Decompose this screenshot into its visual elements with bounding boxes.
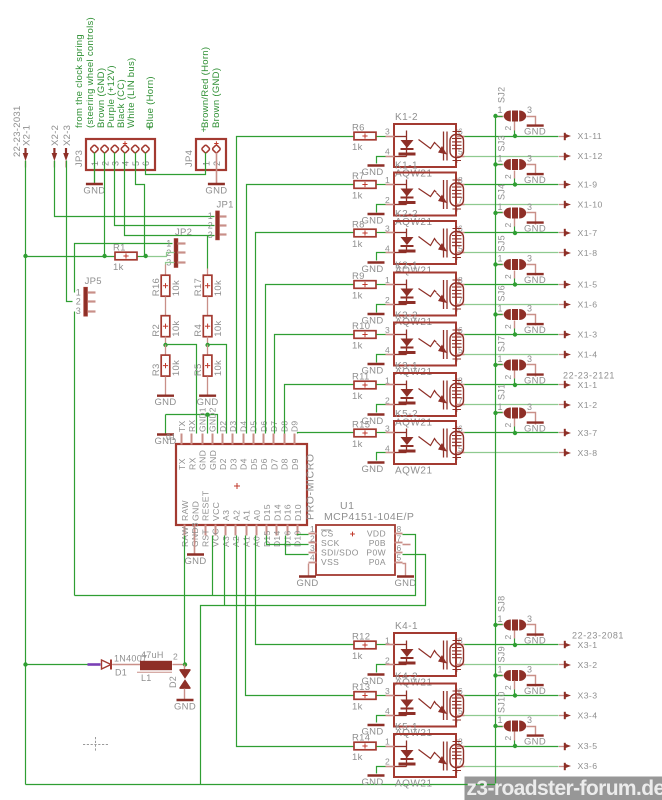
svg-text:GND: GND [197, 397, 219, 408]
wire opto K2-1 output B [465, 304, 559, 306]
wire R2 to node [165, 337, 167, 345]
svg-text:4: 4 [121, 161, 131, 166]
svg-text:GND: GND [524, 686, 546, 697]
svg-text:3: 3 [527, 354, 532, 364]
svg-text:2: 2 [385, 295, 390, 305]
wire D15 to U1 SCK [267, 536, 309, 545]
wire bottom rail to SJ bus [26, 784, 496, 786]
PRO-MICRO top pins [181, 434, 183, 445]
wire RAW down to L1 D2 node [184, 536, 186, 665]
wire JP3 pin1 to ground [94, 153, 96, 185]
wire SJ6 pin1 to bus [496, 314, 503, 316]
svg-text:JP5: JP5 [85, 276, 102, 287]
svg-text:X2-2: X2-2 [50, 125, 61, 146]
wire node to R3 [165, 345, 167, 355]
svg-text:4: 4 [385, 444, 390, 454]
svg-text:TX: TX [177, 421, 187, 432]
svg-text:4: 4 [310, 553, 315, 563]
wire opto K5-2 output B [465, 452, 559, 454]
wire D9 to R11 [285, 385, 355, 434]
svg-text:X1-6: X1-6 [578, 300, 598, 310]
svg-text:2: 2 [503, 374, 513, 379]
wire opto K5-1 output B [465, 766, 559, 768]
wire opto K5-2 cathode to ground [377, 453, 386, 461]
wire D10 to U1 CS [298, 535, 309, 536]
svg-text:1: 1 [385, 275, 390, 285]
resistor R12 [354, 641, 376, 649]
ground below D2 [177, 699, 194, 701]
diode D2 suppressor [184, 665, 186, 670]
svg-text:P0W: P0W [366, 547, 386, 557]
resistor R4 [203, 316, 212, 337]
resistor R10 [354, 331, 376, 339]
svg-text:2: 2 [503, 634, 513, 639]
wire R4 to node [207, 337, 209, 345]
optocoupler K2-2 [394, 221, 456, 264]
wire opto K2-1 output A [465, 284, 559, 286]
svg-text:1: 1 [385, 636, 390, 646]
svg-text:2: 2 [385, 757, 390, 767]
svg-text:X1-4: X1-4 [578, 350, 598, 360]
junction node R2-R3 [163, 343, 167, 347]
svg-text:GND: GND [198, 450, 208, 470]
svg-text:D4: D4 [239, 458, 249, 470]
svg-text:X1-7: X1-7 [578, 228, 598, 238]
wire L1 to node [173, 664, 185, 666]
solder jumper SJ9 [504, 670, 511, 681]
wire D7 to R9 [266, 285, 355, 434]
svg-text:GND: GND [361, 464, 383, 475]
svg-text:GND: GND [190, 501, 200, 521]
wire JP2 pin3 to R16 [166, 263, 175, 265]
solder jumper SJ8 [504, 620, 511, 631]
svg-text:D8: D8 [280, 458, 290, 470]
solder jumper SJ10 [504, 721, 511, 732]
svg-text:1: 1 [498, 254, 503, 264]
wire SJ7 pin2 down [514, 371, 516, 379]
svg-text:2: 2 [503, 274, 513, 279]
svg-text:JP3: JP3 [74, 150, 85, 167]
svg-text:JP4: JP4 [184, 150, 195, 167]
wire U1 P0A to ground [403, 564, 406, 577]
wire R3 to ground [165, 377, 167, 396]
svg-text:4: 4 [385, 244, 390, 254]
svg-text:GND: GND [208, 450, 218, 470]
svg-text:1: 1 [498, 354, 503, 364]
wire A3 down to P0W rail [224, 536, 226, 606]
svg-text:6: 6 [397, 543, 402, 553]
wire SJ6 pin2 down [514, 321, 516, 329]
resistor R15 [354, 429, 376, 437]
svg-text:GND: GND [361, 216, 383, 227]
svg-text:X3-8: X3-8 [578, 448, 598, 458]
optocoupler K2-1 [394, 273, 456, 316]
svg-text:R13: R13 [352, 682, 370, 693]
svg-text:X3-2: X3-2 [578, 660, 598, 670]
svg-text:GND: GND [361, 777, 383, 788]
wire SJ1 pin3 to ground [527, 413, 536, 425]
svg-text:2: 2 [503, 685, 513, 690]
pin X1-12 [559, 156, 565, 158]
pin X1-6 [559, 304, 565, 306]
svg-text:2: 2 [503, 422, 513, 427]
svg-text:1k: 1k [352, 291, 363, 302]
svg-text:4: 4 [385, 345, 390, 355]
wire D2 to ground [184, 689, 186, 701]
connector JP3 [86, 139, 155, 170]
wire X2-3 to JP5 pin2 [67, 161, 73, 302]
wire SJ9 pin1 to bus [496, 675, 503, 677]
optocoupler K5-1 [394, 734, 456, 777]
wire SJ5 pin3 to ground [527, 265, 536, 276]
svg-text:2: 2 [503, 125, 513, 130]
wire 12V row from left rail [26, 664, 88, 666]
svg-text:1: 1 [498, 105, 503, 115]
wire D4 to R6 [237, 137, 355, 434]
svg-text:GND: GND [83, 186, 105, 197]
svg-text:D16: D16 [283, 504, 293, 521]
junction node R1 left [23, 254, 27, 258]
wire SJ10 pin1 to bus [496, 726, 503, 728]
svg-text:R2: R2 [151, 324, 162, 337]
solder jumper SJ6 [504, 309, 511, 320]
resistor R1 [115, 252, 137, 260]
svg-text:GND: GND [174, 702, 196, 713]
svg-text:GND: GND [296, 578, 318, 589]
svg-text:4: 4 [385, 706, 390, 716]
svg-text:1: 1 [385, 737, 390, 747]
resistor R2 [161, 316, 170, 337]
svg-text:GND: GND [524, 636, 546, 647]
svg-text:2: 2 [100, 161, 110, 166]
wire opto K3-1 cathode to ground [377, 405, 386, 413]
wire opto K3-2 cathode to ground [377, 355, 386, 363]
pin X1-7 [559, 232, 565, 234]
wire SJ1 pin2 down [514, 419, 516, 427]
svg-text:R1: R1 [113, 243, 126, 254]
module U2 PRO-MICRO body [176, 444, 307, 525]
wire A2 to R14 [237, 536, 355, 747]
svg-text:GND: GND [524, 224, 546, 235]
pin X3-8 [559, 452, 565, 454]
junction node on left rail [23, 662, 27, 666]
wire JP1 pin3 to R17 [207, 236, 209, 269]
wire SJ4 pin2 down [514, 219, 516, 227]
pin X3-5 [559, 746, 565, 748]
svg-text:RST: RST [200, 529, 210, 547]
wire opto K1-2 output B [465, 156, 559, 158]
svg-text:RX: RX [187, 457, 197, 470]
svg-text:3: 3 [527, 715, 532, 725]
pin X1-10 [559, 204, 565, 206]
svg-text:R14: R14 [352, 733, 370, 744]
svg-text:01: 01 [166, 432, 176, 442]
svg-text:SJ7: SJ7 [497, 336, 507, 352]
wire opto K1-2 output A [465, 136, 559, 138]
wire JP5 pin3 down to VDD rail [74, 312, 76, 596]
resistor R9 [354, 281, 376, 289]
svg-text:3: 3 [527, 105, 532, 115]
wire opto K1-2 cathode to ground [377, 157, 386, 164]
svg-text:X1-2: X1-2 [578, 400, 598, 410]
svg-text:A0: A0 [252, 536, 262, 547]
pin X3-6 [559, 766, 565, 768]
wire SJ9 pin2 down [514, 681, 516, 690]
wire SJ bus vertical [495, 117, 497, 785]
svg-text:10k: 10k [213, 280, 224, 296]
svg-text:3: 3 [527, 402, 532, 412]
pin X1-9 [559, 184, 565, 186]
svg-text:D5: D5 [249, 458, 259, 470]
svg-text:3: 3 [527, 154, 532, 164]
svg-text:GND: GND [524, 376, 546, 387]
wire opto K5-1 output A [465, 746, 559, 748]
junction node GND2 [205, 413, 209, 417]
wire R8 to opto [377, 232, 386, 234]
pin X2-3 [63, 153, 69, 161]
wire R13 to opto [377, 695, 386, 697]
svg-text:(steering wheel controls): (steering wheel controls) [85, 17, 96, 128]
svg-text:SJ8: SJ8 [497, 596, 507, 612]
svg-text:AQW21: AQW21 [395, 779, 433, 790]
svg-text:GND: GND [394, 578, 416, 589]
pin X1-2 [559, 404, 565, 406]
junction node R4-R5 [205, 343, 209, 347]
resistor R17 [203, 275, 212, 296]
svg-text:22-23-2081: 22-23-2081 [572, 631, 624, 641]
pin header JP2 [174, 239, 178, 268]
wire opto K3-1 output A [465, 384, 559, 386]
svg-text:A0: A0 [252, 510, 262, 521]
junction node R1 right [144, 254, 148, 258]
pin X3-2 [559, 664, 565, 666]
svg-text:AQW21: AQW21 [395, 466, 433, 477]
wire SJ8 pin2 down [514, 631, 516, 639]
svg-text:GND: GND [524, 127, 546, 138]
wire A1 to R13 [246, 536, 355, 696]
svg-text:RX: RX [187, 420, 197, 432]
svg-text:D14: D14 [272, 504, 282, 521]
wire node to R5 [207, 345, 209, 355]
svg-text:X2-3: X2-3 [62, 125, 73, 146]
resistor R13 [354, 692, 376, 700]
wire JP5 pin1 riser to JP2 pin1 [75, 244, 173, 293]
connector JP4 [196, 139, 226, 170]
svg-text:SJ3: SJ3 [497, 135, 507, 151]
ground at K2-2 [368, 261, 385, 263]
svg-text:1k: 1k [352, 191, 363, 202]
svg-text:1k: 1k [352, 702, 363, 713]
wire SJ3 pin2 down [514, 171, 516, 179]
svg-text:1: 1 [310, 524, 315, 534]
wire U1 P0W to bottom rail [201, 555, 426, 785]
resistor R3 [161, 355, 170, 376]
wire SJ10 pin2 down [514, 732, 516, 741]
wire U1 VSS to ground [308, 564, 310, 577]
svg-text:R9: R9 [352, 271, 365, 282]
optocoupler K4-1 [394, 633, 456, 676]
svg-text:K3-2: K3-2 [395, 311, 418, 322]
wire SJ3 pin3 to ground [527, 165, 536, 176]
svg-text:3: 3 [385, 424, 390, 434]
wire opto K4-1 output B [465, 664, 559, 666]
svg-text:A3: A3 [221, 510, 231, 521]
junction node L1 D2 RAW [183, 662, 187, 666]
svg-text:1: 1 [201, 161, 211, 166]
wire SJ5 pin2 down [514, 271, 516, 279]
svg-text:from the clock spring: from the clock spring [74, 34, 85, 128]
svg-text:1: 1 [498, 665, 503, 675]
svg-text:1k: 1k [352, 391, 363, 402]
pin X1-5 [559, 284, 565, 286]
svg-text:1: 1 [498, 715, 503, 725]
svg-text:RAW: RAW [180, 500, 190, 521]
svg-text:R4: R4 [193, 324, 204, 337]
ground below JP4 [208, 183, 225, 185]
svg-text:+: + [201, 125, 206, 135]
svg-text:22-23-2121: 22-23-2121 [563, 371, 615, 381]
svg-text:1: 1 [498, 614, 503, 624]
wire opto K1-1 output B [465, 204, 559, 206]
svg-text:1k: 1k [352, 752, 363, 763]
svg-text:K2-1: K2-1 [395, 261, 418, 272]
svg-text:X1-9: X1-9 [578, 180, 598, 190]
wire divider tap to D3 pin [208, 345, 227, 434]
svg-text:JP2: JP2 [175, 227, 192, 238]
svg-text:X1-3: X1-3 [578, 330, 598, 340]
pin X1-1 [559, 384, 565, 386]
diode D1 1N4007 [102, 660, 112, 669]
wire VCC down to VDD rail [212, 536, 214, 596]
svg-text:GND: GND [361, 167, 383, 178]
solder jumper SJ3 [504, 159, 511, 170]
svg-text:1k: 1k [352, 239, 363, 250]
wire opto K4-1 cathode to ground [377, 665, 386, 673]
wire opto K5-1 cathode to ground [377, 767, 386, 774]
svg-text:1: 1 [385, 175, 390, 185]
svg-text:1k: 1k [352, 439, 363, 450]
solder jumper SJ2 [504, 111, 511, 122]
svg-text:1k: 1k [113, 262, 124, 273]
wire opto K3-1 output B [465, 404, 559, 406]
wire SJ9 pin3 to ground [527, 676, 536, 687]
svg-text:R17: R17 [193, 278, 204, 296]
ground at K1-1 [368, 213, 385, 215]
svg-text:3: 3 [527, 614, 532, 624]
svg-text:R15: R15 [352, 420, 370, 431]
pin header JP1 [216, 211, 220, 240]
svg-text:10k: 10k [213, 320, 224, 336]
svg-text:D15: D15 [262, 504, 272, 521]
optocoupler K1-2 [394, 124, 456, 167]
svg-text:1k: 1k [352, 341, 363, 352]
wire X2-2 to JP1 pin1 [55, 161, 215, 217]
wire opto K5-2 output A [465, 432, 559, 434]
pin header JP5 [84, 287, 88, 316]
PRO-MICRO bottom pins [184, 525, 186, 536]
svg-text:X1-8: X1-8 [578, 248, 598, 258]
svg-text:K1-2: K1-2 [395, 112, 418, 123]
svg-text:SDI/SDO: SDI/SDO [321, 547, 359, 557]
wire divider tap to GND1 pin [166, 345, 197, 434]
svg-text:D2: D2 [168, 676, 178, 688]
wire SJ6 pin3 to ground [527, 315, 536, 326]
svg-text:X3-5: X3-5 [578, 741, 598, 751]
wire SJ2 pin1 to bus [496, 116, 503, 118]
wire opto K3-2 output A [465, 334, 559, 336]
optocoupler K1-1 [394, 173, 456, 216]
wire SJ8 pin1 to bus [496, 624, 503, 626]
svg-text:X1-1: X1-1 [578, 380, 598, 390]
svg-text:+: + [147, 123, 152, 133]
svg-text:D7: D7 [269, 458, 279, 470]
svg-text:VCC: VCC [211, 502, 221, 521]
svg-text:GND2: GND2 [208, 407, 218, 432]
resistor R8 [354, 229, 376, 237]
svg-text:K4-1: K4-1 [395, 621, 418, 632]
svg-text:z3-roadster-forum.de: z3-roadster-forum.de [467, 777, 662, 800]
svg-text:X1-5: X1-5 [578, 280, 598, 290]
wire SJ8 pin3 to ground [527, 625, 536, 637]
wire JP3 pin2 down to R1 node [104, 153, 106, 257]
svg-text:X2-1: X2-1 [21, 125, 32, 146]
svg-text:5: 5 [397, 553, 402, 563]
wire JP3 pin3 to JP1 pin2 [115, 153, 215, 226]
wire SJ3 pin1 to bus [496, 164, 503, 166]
wire SJ2 pin2 down [514, 122, 516, 131]
svg-text:R5: R5 [193, 363, 204, 376]
origin crosshair [83, 737, 108, 752]
svg-text:2: 2 [385, 195, 390, 205]
svg-text:3: 3 [385, 686, 390, 696]
svg-text:K2-2: K2-2 [395, 209, 418, 220]
svg-text:R8: R8 [352, 220, 365, 231]
ground below U1 VSS [299, 575, 316, 577]
IC U1 MCP4151-104E/P body [316, 525, 395, 575]
svg-text:1: 1 [498, 202, 503, 212]
svg-text:8: 8 [397, 524, 402, 534]
wire R6 to opto [377, 136, 386, 138]
ground at K5-2 [368, 461, 385, 463]
svg-text:A2: A2 [231, 510, 241, 521]
resistor R6 [354, 132, 376, 140]
svg-text:K1-1: K1-1 [395, 161, 418, 172]
wire opto K4-2 output B [465, 715, 559, 717]
svg-text:L1: L1 [141, 673, 152, 683]
svg-text:X1-10: X1-10 [578, 200, 603, 210]
svg-text:GND: GND [205, 186, 227, 197]
wire D6 to R8 [256, 233, 355, 434]
svg-text:3: 3 [111, 161, 121, 166]
pin X2-1 [23, 153, 29, 161]
wire R15 to opto [377, 432, 386, 434]
svg-text:2: 2 [310, 534, 315, 544]
wire U1 VDD rail [75, 535, 416, 596]
svg-text:1: 1 [498, 304, 503, 314]
wire SJ7 pin3 to ground [527, 365, 536, 377]
wire D8 to R10 [275, 335, 355, 434]
svg-text:R12: R12 [352, 632, 370, 643]
optocoupler K4-2 [394, 684, 456, 727]
svg-text:SJ5: SJ5 [497, 235, 507, 251]
wire R14 to opto [377, 746, 386, 748]
svg-text:D2: D2 [218, 458, 228, 470]
ground below R3 [157, 395, 174, 397]
svg-text:47uH: 47uH [141, 650, 164, 660]
resistor R14 [354, 742, 376, 750]
svg-text:7: 7 [397, 534, 402, 544]
wire R16 to R2 [165, 297, 167, 316]
